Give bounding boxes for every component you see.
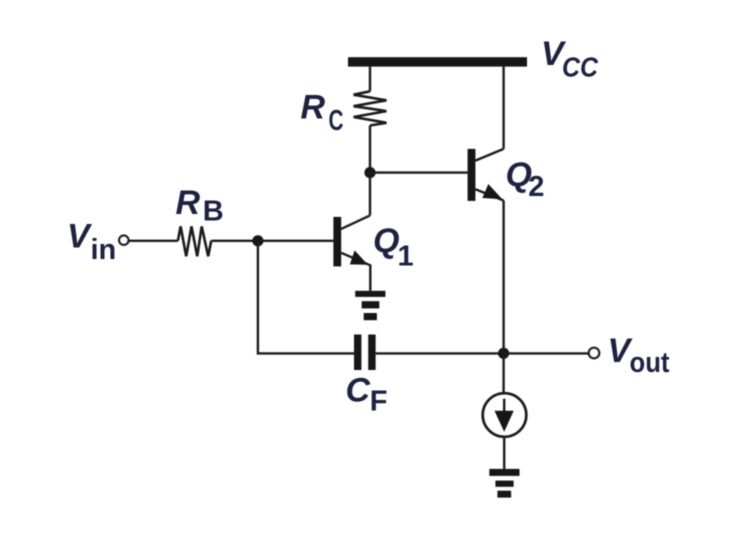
input terminal Vin [119, 236, 128, 245]
transistor Q2 [468, 149, 504, 201]
node B junction dot [252, 235, 263, 246]
label RB [176, 184, 224, 228]
svg-text:V: V [67, 218, 93, 256]
wire Q2 collector to VCC rail [502, 67, 504, 149]
label Vin [67, 218, 116, 267]
wire node B to Q1 base [258, 240, 334, 242]
wire output node to Vout terminal [504, 352, 589, 354]
wire RC bottom to node A [369, 126, 371, 173]
svg-text:C: C [329, 105, 344, 137]
transistor Q1 [333, 215, 370, 266]
label RC [301, 88, 344, 137]
wire VCC rail to resistor RC [369, 67, 371, 92]
current source I1 [483, 393, 527, 437]
node A junction dot [364, 167, 375, 178]
output terminal Vout [589, 348, 599, 358]
wire current source to ground [503, 437, 505, 469]
svg-text:in: in [91, 234, 117, 266]
wire CF to output node [376, 352, 504, 354]
svg-text:R: R [301, 88, 326, 126]
VCC rail [348, 57, 527, 66]
label Q2 [506, 156, 545, 203]
wire Vin terminal to RB [128, 240, 178, 242]
capacitor CF [354, 335, 376, 371]
wire node A down to Q1 collector [369, 173, 371, 216]
label Vout [608, 332, 670, 379]
svg-text:C: C [346, 372, 371, 410]
resistor RC [354, 91, 387, 125]
wire output node to current source [502, 353, 504, 393]
label CF [346, 372, 388, 418]
wire node A to Q2 base [370, 171, 468, 173]
svg-text:R: R [176, 184, 201, 222]
wire Q2 emitter to output node [502, 201, 504, 354]
svg-text:Q: Q [373, 222, 399, 260]
resistor RB [178, 226, 211, 256]
wire RB to node B [211, 240, 258, 242]
output node junction dot [498, 348, 509, 359]
svg-text:F: F [370, 386, 388, 418]
label VCC [541, 35, 599, 83]
wire Q1 emitter down [369, 265, 371, 291]
svg-text:out: out [630, 347, 670, 379]
ground (current source) [489, 469, 519, 498]
wire node B down to feedback branch [258, 241, 354, 354]
svg-text:CC: CC [562, 52, 599, 83]
svg-text:1: 1 [398, 240, 414, 272]
label Q1 [373, 222, 414, 272]
ground (Q1 emitter) [355, 291, 385, 320]
svg-text:B: B [203, 196, 224, 228]
svg-text:2: 2 [528, 171, 544, 203]
